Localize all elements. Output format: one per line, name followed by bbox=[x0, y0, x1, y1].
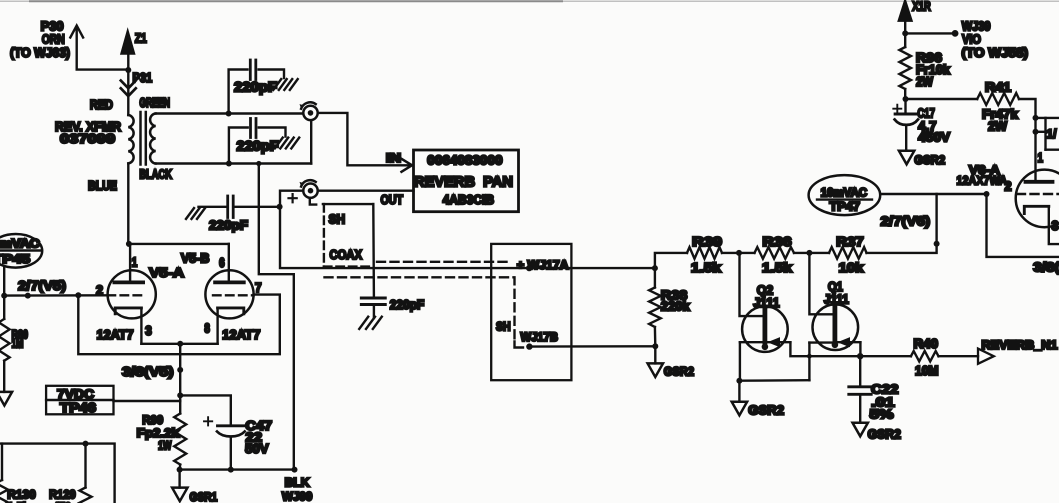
transformer core bbox=[139, 112, 142, 165]
svg-text:TP47: TP47 bbox=[830, 200, 861, 214]
resistor R80 1M bbox=[3, 296, 5, 319]
svg-text:3/8(V6): 3/8(V6) bbox=[1033, 259, 1059, 274]
svg-text:3: 3 bbox=[145, 324, 152, 338]
svg-text:10mVAC: 10mVAC bbox=[0, 237, 40, 251]
node corner dot bbox=[934, 241, 940, 247]
svg-text:SH: SH bbox=[496, 319, 511, 333]
wire BLACK secondary to jack shell bbox=[156, 162, 312, 164]
resistor R38 220k bbox=[649, 288, 661, 328]
svg-text:REVERB PAN: REVERB PAN bbox=[414, 174, 513, 190]
svg-text:GSR1: GSR1 bbox=[190, 490, 218, 503]
svg-text:12AT7: 12AT7 bbox=[97, 328, 134, 342]
ground GSR2 (under C22) bbox=[853, 423, 868, 437]
wire cathodes rail bbox=[141, 343, 217, 345]
svg-text:220pF: 220pF bbox=[234, 80, 277, 95]
ground GSR2 (under Q2) bbox=[738, 381, 740, 402]
capacitor C22 .01 5% bbox=[849, 356, 871, 423]
resistor R41 Fr47k 2W bbox=[977, 93, 1019, 105]
svg-text:037099: 037099 bbox=[60, 131, 115, 146]
svg-text:RED: RED bbox=[90, 97, 113, 112]
node junction out/cap bbox=[277, 204, 283, 210]
svg-text:1: 1 bbox=[1038, 151, 1044, 165]
transistor Q1 J111 bbox=[809, 253, 860, 380]
connector phono jack (pan OUT) bbox=[303, 184, 317, 198]
wire node to R41 bbox=[906, 98, 978, 100]
svg-text:GSR2: GSR2 bbox=[868, 427, 901, 442]
resistor R40 10M bbox=[911, 351, 939, 361]
svg-text:WJ99: WJ99 bbox=[282, 490, 313, 503]
svg-text:220pF: 220pF bbox=[390, 298, 425, 312]
node junction grid loop bbox=[75, 292, 81, 298]
svg-text:(TO WJ63): (TO WJ63) bbox=[10, 45, 70, 60]
wire grid node down/right 3/8(V6) bbox=[987, 194, 1059, 257]
svg-text:BLACK: BLACK bbox=[139, 167, 172, 181]
wire TP45 to grid wire bbox=[3, 267, 5, 296]
wire OUT jack center to coax center bbox=[280, 191, 529, 268]
capacitor 220pF (coax to chassis gnd) bbox=[359, 298, 385, 329]
svg-text:BLK: BLK bbox=[285, 476, 310, 490]
node junction gates/C22/R40 bbox=[857, 353, 863, 359]
svg-text:GSR2: GSR2 bbox=[914, 153, 945, 167]
box WJ17 connector bbox=[491, 244, 571, 380]
wire reverb pan OUT to jack bbox=[318, 189, 414, 191]
svg-text:5%: 5% bbox=[870, 407, 895, 422]
transformer secondary winding bbox=[150, 114, 156, 164]
wire R37 to V6 grid bbox=[867, 194, 937, 253]
ground GSR2 (reverb return) bbox=[654, 346, 656, 363]
wire jog up to R39 line bbox=[655, 253, 687, 268]
svg-text:WJ17B: WJ17B bbox=[521, 330, 559, 344]
capacitor 220pF (out lead to chassis gnd) bbox=[186, 196, 280, 219]
capacitor 220pF (black lead to chassis gnd) bbox=[229, 119, 299, 164]
tube V5-B 12AT7 bbox=[205, 244, 253, 344]
svg-text:12AT7: 12AT7 bbox=[222, 328, 260, 342]
svg-text:6: 6 bbox=[219, 256, 225, 270]
box REVERB PAN 0064083000 4AB3CIB bbox=[414, 150, 519, 212]
diode Z1 arrow symbol bbox=[122, 31, 147, 70]
node P30 ORN (TO WJ63) off-page arrow bbox=[10, 19, 129, 70]
wire/terminal WJ39 VIO (TO WJ58) bbox=[905, 32, 955, 34]
tube V5-A 12AT7 bbox=[108, 244, 156, 344]
svg-text:OUT: OUT bbox=[381, 193, 404, 207]
testpoint box 7VDC TP46 bbox=[46, 386, 113, 415]
svg-text:WJ39: WJ39 bbox=[962, 20, 991, 34]
svg-text:3/8(V5): 3/8(V5) bbox=[122, 364, 174, 379]
wire jack to reverb pan IN bbox=[318, 113, 410, 165]
svg-text:V5-A: V5-A bbox=[149, 265, 185, 280]
node junction X1R/WJ39 bbox=[902, 30, 908, 36]
node junction V6 grid bbox=[984, 191, 990, 197]
svg-text:50V: 50V bbox=[245, 441, 269, 456]
svg-text:1.5k: 1.5k bbox=[762, 260, 793, 275]
svg-text:2/7(V5): 2/7(V5) bbox=[18, 278, 66, 293]
wire grid loop V5-A to V5-B pin7 bbox=[78, 295, 279, 355]
node B junction R36/R37/Q1 bbox=[806, 250, 812, 256]
node junction Q2 source/gnd rail bbox=[736, 378, 742, 384]
node small junction gate rail crossing bbox=[807, 354, 812, 359]
svg-text:J111: J111 bbox=[753, 295, 779, 310]
svg-text:R37: R37 bbox=[836, 234, 863, 249]
svg-text:V5-B: V5-B bbox=[181, 252, 210, 266]
wire source gnd rail to Q1 bbox=[739, 379, 809, 382]
capacitor C47 22 50V electrolytic bbox=[180, 395, 245, 469]
testpoint oval 10mVAC TP45 (clipped) bbox=[0, 234, 42, 268]
svg-text:12AX7WA: 12AX7WA bbox=[957, 174, 1008, 188]
node junction P30/Z1/P31 bbox=[125, 67, 131, 73]
node A junction R39/R36/Q2 bbox=[736, 250, 742, 256]
svg-text:TP45: TP45 bbox=[0, 252, 31, 266]
svg-text:10M: 10M bbox=[915, 364, 939, 378]
svg-text:+ WJ17A: + WJ17A bbox=[517, 258, 569, 272]
node junction plates bbox=[126, 241, 132, 247]
svg-text:J111: J111 bbox=[824, 291, 849, 306]
svg-text:2W: 2W bbox=[916, 75, 933, 89]
svg-text:X1R: X1R bbox=[912, 0, 930, 14]
resistor R130 (clipped) bbox=[1, 444, 3, 480]
resistor R129 (clipped) bbox=[84, 444, 86, 488]
capacitor C17 4.7 450V electrolytic bbox=[893, 99, 918, 151]
svg-text:1.5k: 1.5k bbox=[691, 260, 722, 275]
svg-text:IN: IN bbox=[386, 151, 401, 165]
arrow IN into pan bbox=[402, 159, 413, 172]
svg-text:1M: 1M bbox=[12, 336, 24, 350]
svg-text:1W: 1W bbox=[158, 439, 172, 453]
svg-text:10k: 10k bbox=[839, 260, 865, 275]
node junction WJ17A/R38/R39 bbox=[652, 265, 658, 271]
wire bottom gnd rail bbox=[180, 468, 295, 470]
svg-text:Z1: Z1 bbox=[135, 31, 147, 46]
svg-text:8: 8 bbox=[204, 322, 210, 336]
box partial 1/ at right edge bbox=[1036, 118, 1059, 150]
connector P31 double-chevron plug bbox=[121, 70, 152, 115]
node junction black/WJ99 drop bbox=[256, 161, 261, 166]
svg-text:REVERB_N1: REVERB_N1 bbox=[982, 338, 1058, 352]
polarity + mark bbox=[289, 194, 297, 202]
shield box SH COAX bbox=[323, 204, 373, 267]
wire GREEN secondary to IN jack bbox=[156, 112, 304, 114]
tube V6-A 12AX7WA bbox=[1016, 170, 1059, 245]
svg-text:10mVAC: 10mVAC bbox=[821, 185, 868, 199]
svg-text:7VDC: 7VDC bbox=[57, 387, 94, 401]
wire WJ17B to R38 bottom bbox=[529, 345, 655, 348]
svg-text:0064083000: 0064083000 bbox=[427, 154, 502, 168]
svg-text:7: 7 bbox=[255, 281, 262, 295]
transformer REV. XFMR 037099 primary winding bbox=[128, 115, 133, 163]
transistor Q2 J111 bbox=[740, 253, 861, 381]
svg-text:COAX: COAX bbox=[330, 248, 363, 262]
svg-text:R41: R41 bbox=[985, 80, 1011, 94]
testpoint oval 10mVAC TP47 bbox=[809, 175, 881, 215]
wire TP47 to V6 grid bbox=[880, 193, 986, 195]
svg-text:2/7(V6): 2/7(V6) bbox=[881, 214, 931, 229]
svg-text:3: 3 bbox=[1052, 219, 1059, 233]
svg-text:P31: P31 bbox=[133, 70, 153, 85]
svg-text:220pF: 220pF bbox=[209, 217, 248, 232]
node dots on plate feed bbox=[1033, 115, 1039, 121]
node junction R99/C47 bbox=[177, 392, 183, 398]
svg-text:BLUE: BLUE bbox=[88, 178, 117, 193]
node junction R38/WJ17B/gnd bbox=[652, 343, 658, 349]
ground GSR1 bbox=[178, 470, 180, 488]
svg-text:(TO WJ58): (TO WJ58) bbox=[962, 46, 1029, 60]
svg-text:R39: R39 bbox=[692, 234, 722, 249]
capacitor 220pF (green lead to chassis gnd) bbox=[229, 60, 298, 114]
svg-text:4AB3CIB: 4AB3CIB bbox=[443, 193, 495, 207]
wire grid input 2/7(V5) bbox=[4, 294, 107, 297]
wire jack shell to black rail bbox=[310, 120, 312, 163]
wire black shield to WJ99/GSR1 rail bbox=[259, 164, 294, 470]
svg-text:220pF: 220pF bbox=[237, 139, 279, 154]
wire shield-box drop to cap bbox=[372, 204, 375, 297]
svg-text:VIO: VIO bbox=[962, 33, 981, 47]
wire to R40 bbox=[860, 355, 911, 357]
shield dashed lines coax to WJ17 bbox=[377, 261, 510, 263]
svg-text:450V: 450V bbox=[918, 130, 950, 145]
jack ground tab hook bbox=[310, 198, 316, 205]
svg-text:TP46: TP46 bbox=[60, 401, 96, 415]
ground GSR2 (under C17) bbox=[899, 151, 914, 165]
wire BLUE primary to V5 plates bbox=[127, 164, 129, 244]
resistor R36 1.5k bbox=[755, 247, 795, 259]
svg-text:R36: R36 bbox=[763, 234, 792, 249]
power node X1R arrow bbox=[899, 1, 912, 21]
faint scanner line along top edge bbox=[0, 0, 1059, 2]
node junction cathodes bbox=[177, 341, 183, 347]
resistor R96 Fr10k 2W bbox=[904, 33, 906, 47]
svg-text:GREEN: GREEN bbox=[139, 96, 170, 110]
wire TP46 to cathode node bbox=[114, 400, 181, 402]
svg-text:2: 2 bbox=[1005, 180, 1012, 194]
svg-text:SH: SH bbox=[329, 213, 345, 227]
wire plate tie bar bbox=[129, 243, 229, 245]
flag REVERB_N1 signal arrow bbox=[978, 349, 994, 364]
resistor R39 1.5k bbox=[687, 247, 722, 259]
node junction black/cap bbox=[226, 161, 232, 167]
wire cathode down 3/8(V5) bbox=[179, 344, 181, 414]
svg-text:1/: 1/ bbox=[1047, 127, 1058, 141]
svg-text:GSR2: GSR2 bbox=[664, 365, 694, 379]
ground triangle (under R80) bbox=[3, 361, 5, 392]
svg-text:2W: 2W bbox=[988, 119, 1007, 133]
svg-text:220k: 220k bbox=[661, 300, 690, 314]
wire to flag bbox=[939, 355, 979, 357]
resistor R37 10k bbox=[829, 247, 867, 259]
wire R41 to V6 plate bbox=[1019, 99, 1036, 181]
resistor R99 Fp2.2k 1W bbox=[174, 414, 186, 465]
svg-text:1: 1 bbox=[132, 255, 138, 269]
svg-text:GSR2: GSR2 bbox=[748, 403, 784, 418]
node junction R96/C17/R41 bbox=[903, 96, 909, 102]
svg-text:R40: R40 bbox=[914, 337, 939, 351]
node junction green/cap bbox=[226, 111, 232, 117]
connector phono jack (pan IN) bbox=[303, 106, 317, 120]
wire bottom-left rail bbox=[0, 444, 115, 503]
wire WJ17A to R38 node bbox=[529, 267, 655, 269]
